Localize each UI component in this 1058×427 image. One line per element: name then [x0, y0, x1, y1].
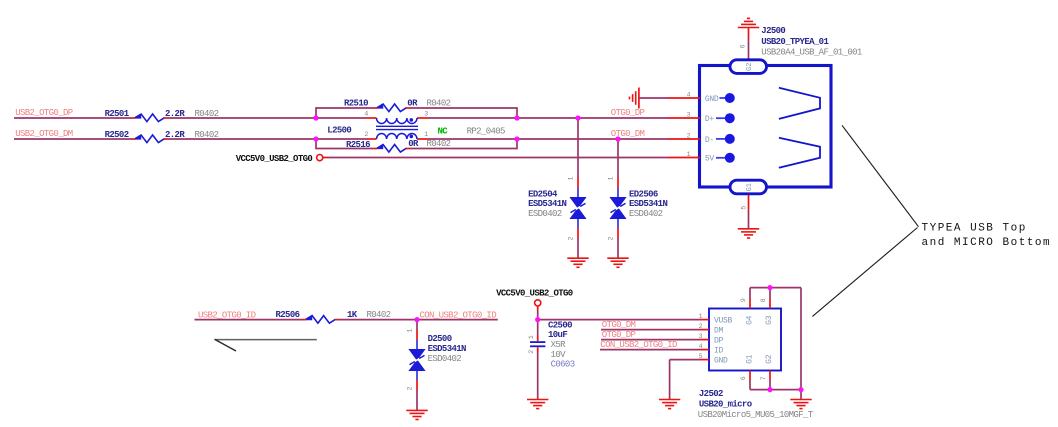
svg-text:R2502: R2502 [105, 130, 129, 140]
wire micro top horizontal [750, 287, 801, 289]
choke L2500 top winding [377, 118, 417, 124]
annotation arrow leader [215, 339, 317, 341]
svg-text:2: 2 [608, 237, 615, 241]
svg-text:4: 4 [687, 91, 691, 98]
wire VCC5V0 to 5V pin [328, 157, 668, 159]
svg-text:ESD0402: ESD0402 [428, 354, 462, 364]
svg-text:GND: GND [714, 357, 728, 366]
wire bypass bottom left vertical [315, 139, 317, 149]
wire DM middle segment [168, 138, 367, 140]
svg-text:USB20_TPYEA_01: USB20_TPYEA_01 [761, 37, 829, 47]
svg-text:ED2504: ED2504 [528, 189, 558, 199]
wire micro DP [601, 339, 700, 341]
svg-text:0R: 0R [408, 139, 419, 149]
wire J2500 pin5 to ground [748, 210, 750, 229]
svg-text:10V: 10V [551, 350, 567, 360]
svg-text:1: 1 [687, 151, 691, 158]
svg-text:1: 1 [424, 131, 428, 138]
ground J2500 top ground [738, 18, 759, 27]
pin stub C2500 pin1 [537, 336, 539, 342]
wire GND pin 4 [639, 97, 668, 99]
svg-text:TYPEA USB Top: TYPEA USB Top [922, 223, 1027, 235]
wire ED2504 branch vertical [577, 118, 579, 177]
wire D2500 to ground [416, 390, 418, 410]
pin GND lead and circle [720, 93, 735, 103]
wire bypass bottom horizontal right [410, 148, 518, 150]
power terminal circle bottom [535, 300, 541, 311]
ground micro right ground [790, 400, 811, 409]
svg-text:1K: 1K [347, 310, 358, 320]
junction DP left [313, 115, 318, 120]
choke L2500 core lines [376, 126, 418, 129]
wire DP right segment [428, 117, 668, 119]
wire micro GND horizontal [670, 359, 700, 361]
svg-text:OTG0_DP: OTG0_DP [602, 330, 636, 340]
pin stub J2502 pin4 [700, 349, 709, 351]
wire micro DM [601, 329, 700, 331]
svg-text:C0603: C0603 [551, 360, 575, 370]
pin stub J2502 pin7 [769, 371, 771, 381]
svg-text:2: 2 [567, 237, 574, 241]
wire ID right segment [339, 319, 498, 321]
pin stub J2502 pin5 [700, 359, 709, 361]
wire micro right vertical [800, 288, 802, 390]
wire bypass top horizontal left [316, 107, 374, 109]
svg-text:CON_USB2_OTG0_ID: CON_USB2_OTG0_ID [420, 310, 497, 320]
junction micro bottom left [767, 387, 772, 392]
wire USB2_OTG0_DM left segment [14, 138, 132, 140]
connector J2500 contact symbol lower [779, 138, 820, 168]
svg-text:G1: G1 [746, 183, 754, 191]
callout line lower [812, 228, 917, 317]
wire DP middle segment [168, 117, 367, 119]
svg-text:R0402: R0402 [427, 98, 451, 108]
TVS diode ED2506 symbol [610, 198, 626, 219]
svg-text:ESD5341N: ESD5341N [629, 199, 667, 209]
svg-text:OTG0_DM: OTG0_DM [611, 129, 645, 139]
svg-text:D+: D+ [705, 115, 715, 124]
pin stub ED2506 pin2 [617, 228, 619, 238]
ground micro GND ground [659, 400, 680, 409]
svg-text:J2500: J2500 [761, 26, 785, 36]
resistor R2506 body [303, 316, 339, 324]
pin stub J2502 pin2 [700, 329, 709, 331]
junction DM left [313, 136, 318, 141]
wire D2500 lead top [416, 340, 418, 350]
pin stub J2500 pin1 5V [668, 157, 700, 159]
pin stub ED2506 pin1 [617, 177, 619, 188]
choke L2500 pin stubs [366, 118, 428, 139]
choke L2500 bottom winding [377, 134, 417, 140]
svg-text:NC: NC [438, 127, 449, 137]
svg-text:C2500: C2500 [548, 320, 572, 330]
connector J2500 body [700, 66, 832, 188]
svg-text:9: 9 [740, 298, 747, 302]
pin stub D2500 pin1 [416, 330, 418, 340]
capacitor C2500 plates [530, 342, 545, 346]
wire bypass bottom horizontal left [316, 148, 374, 150]
wire ED2506 to ground [617, 238, 619, 258]
svg-text:1: 1 [528, 335, 535, 339]
svg-text:R2516: R2516 [346, 140, 370, 150]
pin D- lead and circle [716, 134, 735, 144]
pin stub J2500 pin6 red [748, 28, 750, 40]
svg-text:CON_USB2_OTG0_ID: CON_USB2_OTG0_ID [600, 340, 677, 350]
wire bypass top right vertical [516, 107, 518, 118]
svg-text:ESD0402: ESD0402 [629, 209, 663, 219]
wire J2502 pin9 up [749, 288, 751, 299]
svg-text:L2500: L2500 [327, 126, 351, 136]
junction DP right [514, 115, 519, 120]
pin stub ED2504 pin2 [577, 228, 579, 238]
pin stub D2500 pin2 [416, 380, 418, 390]
svg-text:USB2_OTG0_DM: USB2_OTG0_DM [15, 129, 73, 139]
svg-text:DM: DM [714, 327, 724, 336]
resistor R2501 body [132, 114, 168, 122]
junction DM at ED2506 [615, 136, 620, 141]
annotation arrow head [215, 339, 237, 351]
wire ID left segment [195, 319, 303, 321]
wire J2502 pin7 down [769, 380, 771, 390]
svg-text:R2501: R2501 [105, 109, 130, 119]
pin stub J2502 pin9 [749, 299, 751, 309]
wire bypass top left vertical [315, 107, 317, 118]
svg-text:ESD5341N: ESD5341N [428, 344, 466, 354]
resistor R2516 body [374, 145, 410, 153]
wire USB2_OTG0_DP left segment [14, 117, 132, 119]
svg-text:7: 7 [760, 376, 767, 380]
wire ED2504 to ground [577, 238, 579, 258]
svg-text:VUSB: VUSB [714, 317, 733, 326]
svg-text:R2510: R2510 [344, 98, 368, 108]
svg-text:R0402: R0402 [427, 139, 451, 149]
svg-text:OTG0_DP: OTG0_DP [611, 108, 645, 118]
svg-text:DP: DP [714, 337, 724, 346]
svg-text:R2506: R2506 [276, 310, 300, 320]
svg-text:USB20A4_USB_AF_01_001: USB20A4_USB_AF_01_001 [761, 48, 862, 58]
resistor R2502 body [132, 135, 168, 143]
wire micro bottom horizontal [750, 389, 801, 391]
svg-text:4: 4 [364, 111, 368, 118]
svg-text:VCC5V0_USB2_OTG0: VCC5V0_USB2_OTG0 [236, 154, 313, 164]
wire ED2506 lead top [617, 188, 619, 198]
wire J2502 pin6 down [749, 380, 751, 390]
svg-text:6: 6 [740, 44, 747, 48]
pin stub C2500 pin2 [537, 347, 539, 353]
svg-text:J2502: J2502 [699, 389, 723, 399]
wire bypass top horizontal right [410, 107, 518, 109]
pin stub J2502 pin3 [700, 339, 709, 341]
ground ED2504 ground [567, 258, 588, 267]
wire VCC bottom vertical [537, 311, 539, 320]
junction ID at D2500 [414, 317, 419, 322]
svg-text:2: 2 [406, 386, 413, 390]
wire DM right segment [428, 138, 668, 140]
junction micro bottom right [798, 387, 803, 392]
wire ED2506 lead bottom [617, 218, 619, 228]
svg-text:X5R: X5R [551, 340, 567, 350]
svg-text:G3: G3 [765, 315, 774, 325]
wire bypass bottom right vertical [516, 139, 518, 149]
TVS diode D2500 symbol [409, 350, 425, 371]
svg-text:GND: GND [705, 95, 719, 104]
pin stub J2500 pin4 GND [668, 97, 700, 99]
ground ED2506 ground [607, 258, 628, 267]
svg-text:6: 6 [740, 376, 747, 380]
pin 5V lead and circle [716, 153, 735, 163]
junction VCC at C2500 [535, 317, 540, 322]
svg-text:5V: 5V [705, 154, 715, 163]
wire D2500 lead bottom [416, 370, 418, 380]
svg-text:D-: D- [705, 136, 714, 145]
junction DP at ED2504 [575, 115, 580, 120]
connector J2500 G1 tab [730, 180, 767, 194]
svg-text:and MICRO Bottom: and MICRO Bottom [922, 237, 1052, 249]
connector J2500 G2 tab [730, 60, 767, 74]
svg-text:R0402: R0402 [367, 310, 391, 320]
wire VUSB horizontal [538, 319, 700, 321]
pin stub J2502 pin1 [700, 319, 709, 321]
wire micro ground stem [800, 390, 802, 400]
svg-text:G1: G1 [746, 354, 755, 364]
pin stub J2502 pin8 [769, 299, 771, 309]
ground J2500 bottom ground [738, 229, 759, 238]
wire ED2504 lead top [577, 188, 579, 198]
svg-text:USB20_micro: USB20_micro [699, 400, 752, 410]
wire ED2504 lead bottom [577, 218, 579, 228]
svg-text:USB2_OTG0_DP: USB2_OTG0_DP [15, 108, 73, 118]
wire micro ID [600, 349, 700, 351]
svg-text:1: 1 [406, 328, 413, 332]
svg-text:0R: 0R [407, 98, 418, 108]
svg-text:4: 4 [699, 343, 703, 350]
svg-text:ED2506: ED2506 [629, 189, 658, 199]
svg-text:USB20Micro5_MU05_10MGF_T: USB20Micro5_MU05_10MGF_T [698, 410, 814, 420]
svg-text:G2: G2 [746, 63, 754, 71]
svg-text:3: 3 [424, 111, 428, 118]
svg-text:3: 3 [687, 111, 691, 118]
svg-text:2: 2 [687, 132, 691, 139]
callout line upper [842, 125, 919, 226]
svg-text:G2: G2 [765, 354, 774, 364]
pin stub J2500 pin5 red [748, 195, 750, 210]
wire J2500 pin6 [748, 39, 750, 60]
svg-text:VCC5V0_USB2_OTG0: VCC5V0_USB2_OTG0 [496, 288, 573, 298]
pin stub J2502 pin6 [749, 371, 751, 381]
wire D2500 branch [416, 320, 418, 330]
ground D2500 ground [406, 410, 427, 419]
ground C2500 ground [527, 400, 548, 409]
svg-text:2: 2 [364, 131, 368, 138]
svg-text:1: 1 [608, 176, 615, 180]
svg-text:ID: ID [714, 347, 724, 356]
svg-text:8: 8 [760, 298, 767, 302]
svg-text:OTG0_DM: OTG0_DM [602, 320, 636, 330]
resistor R2510 body [374, 104, 410, 112]
wire ED2506 branch vertical [617, 139, 619, 177]
wire C2500 to ground [537, 353, 539, 400]
connector J2500 contact symbol upper [779, 88, 820, 119]
svg-text:10uF: 10uF [548, 330, 567, 340]
svg-text:2: 2 [528, 350, 535, 354]
svg-text:5: 5 [699, 353, 703, 360]
svg-text:3: 3 [699, 333, 703, 340]
svg-text:1: 1 [699, 313, 703, 320]
pin D+ lead and circle [716, 113, 735, 123]
connector J2502 body [709, 309, 781, 371]
junction DM right [514, 136, 519, 141]
pin stub ED2504 pin1 [577, 177, 579, 188]
wire C2500 branch [537, 320, 539, 336]
svg-text:5: 5 [741, 206, 748, 210]
svg-text:RP2_0405: RP2_0405 [467, 127, 505, 137]
svg-text:2: 2 [699, 323, 703, 330]
svg-text:1: 1 [567, 176, 574, 180]
pin stub J2500 pin2 DM [668, 138, 700, 140]
svg-text:G4: G4 [746, 315, 755, 325]
svg-text:ESD0402: ESD0402 [528, 209, 562, 219]
ground sideways at GND pin [630, 88, 639, 109]
wire micro GND vertical [669, 360, 671, 400]
junction micro top [767, 285, 772, 290]
power terminal circle top [317, 155, 328, 161]
svg-text:D2500: D2500 [428, 334, 452, 344]
wire J2502 pin8 up [769, 288, 771, 299]
svg-text:ESD5341N: ESD5341N [528, 199, 566, 209]
pin stub J2500 pin3 DP [668, 117, 700, 119]
TVS diode ED2504 symbol [570, 198, 586, 219]
